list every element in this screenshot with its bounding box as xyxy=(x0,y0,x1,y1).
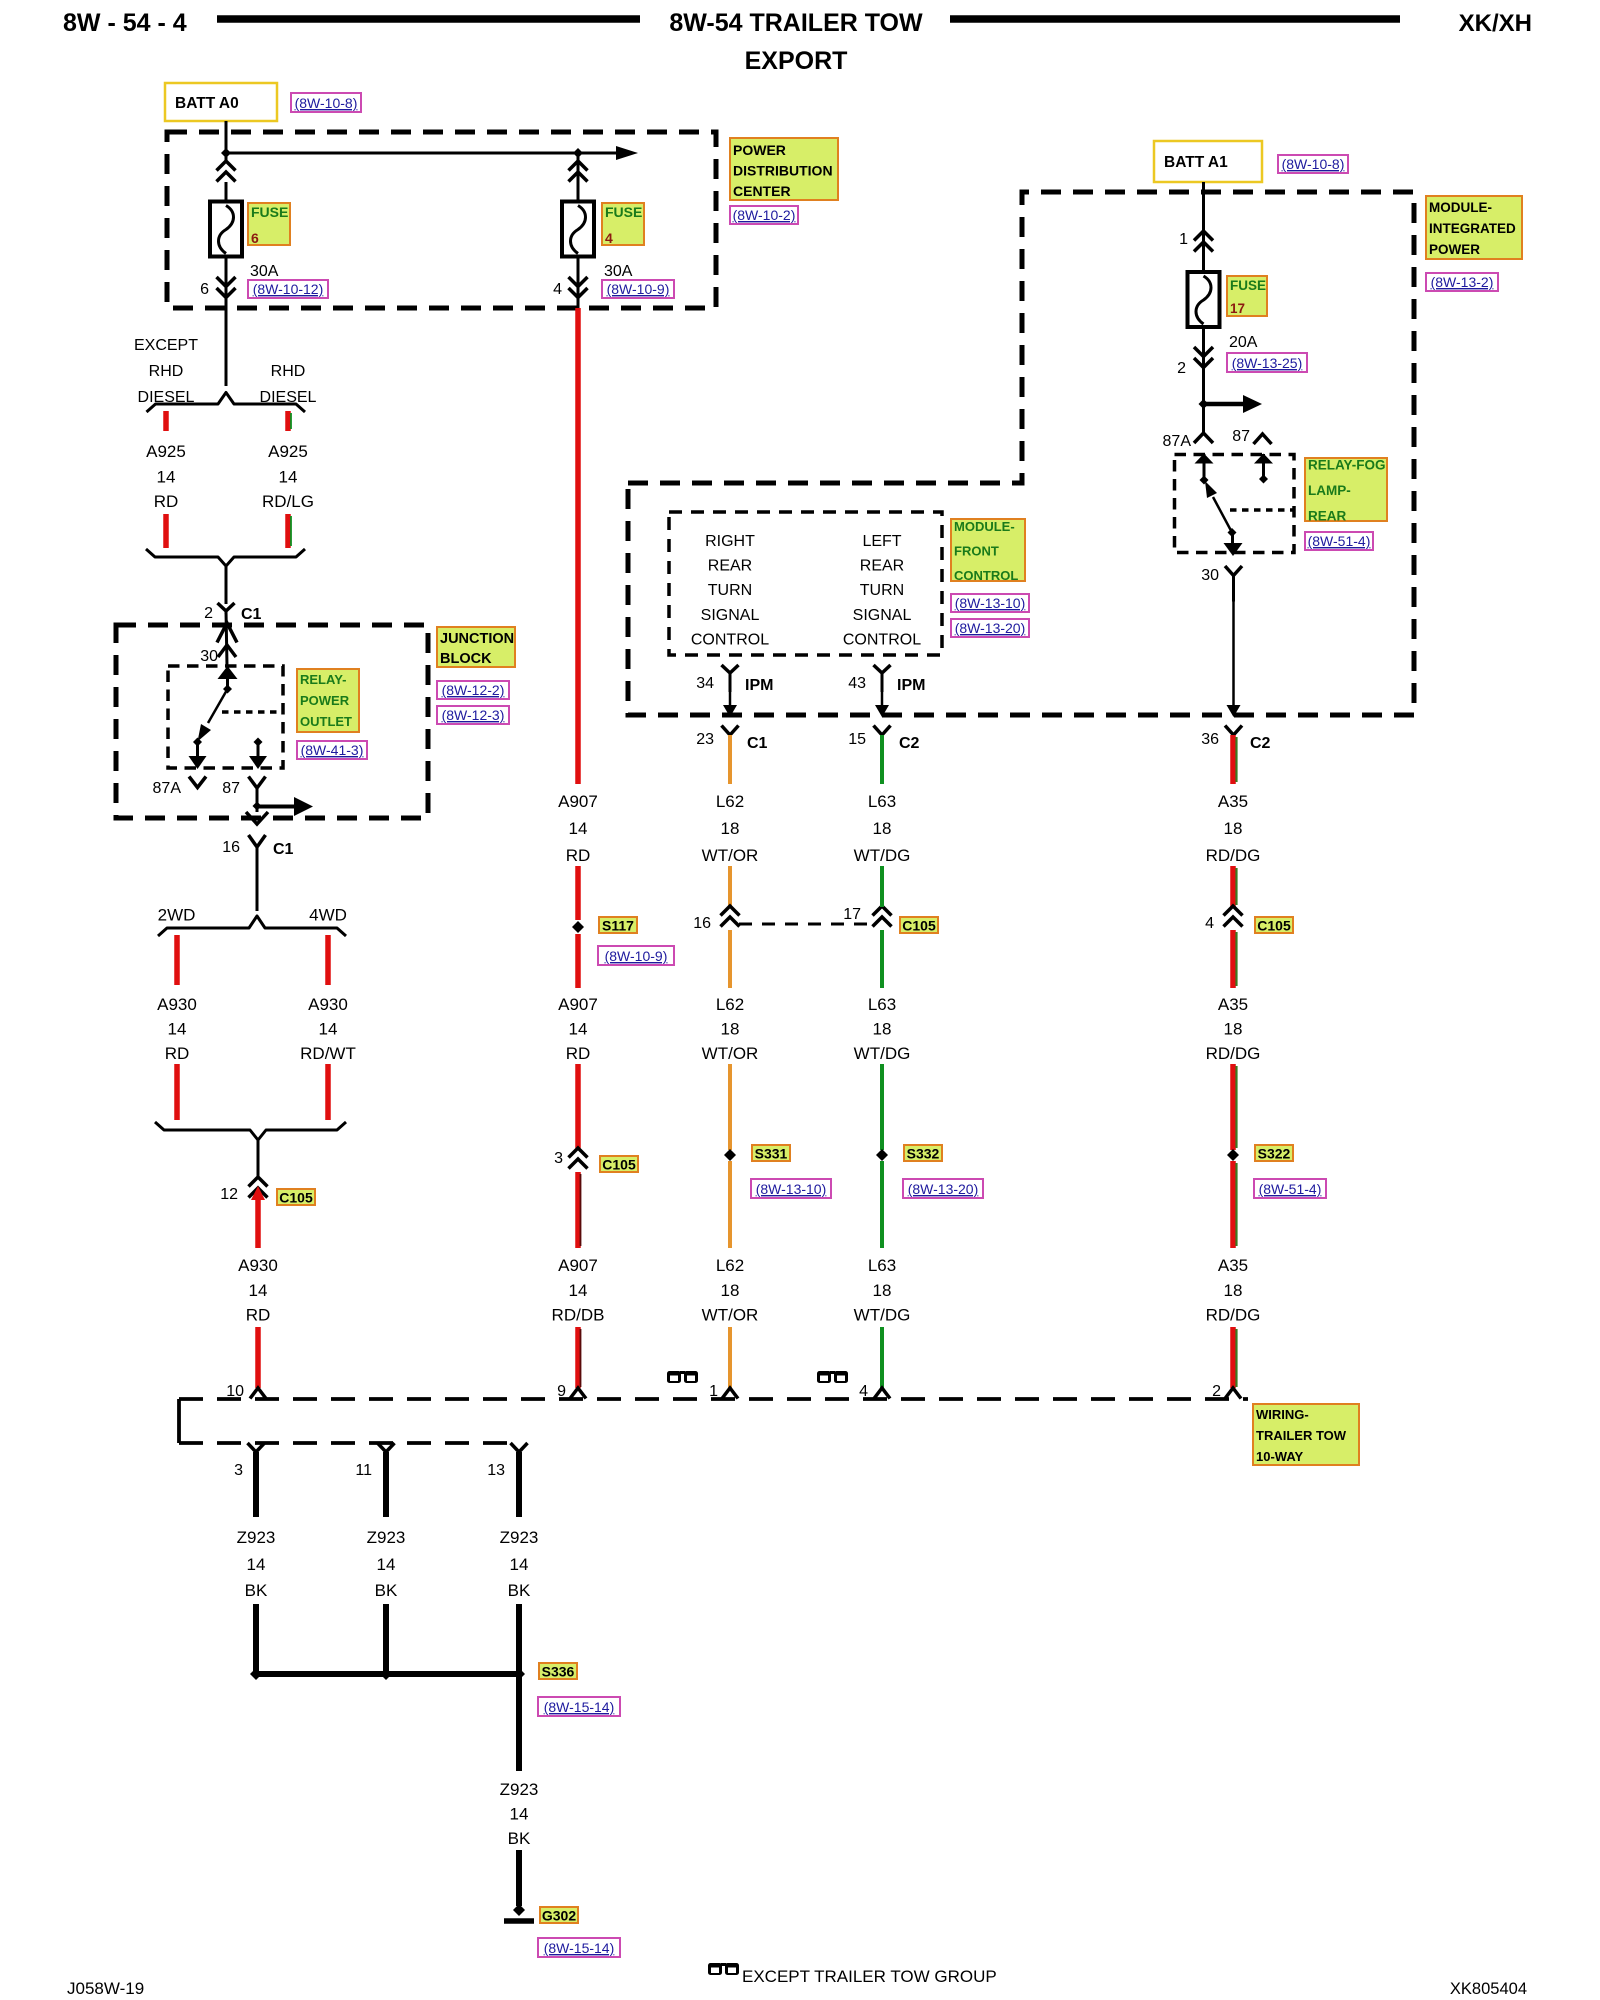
link 8W-13-25 for fuse 17 xyxy=(1227,353,1307,372)
splice bus wire S336 xyxy=(256,1671,519,1677)
relay 87 contact inside xyxy=(1262,454,1265,479)
link 8W-51-4 for S322 xyxy=(1254,1179,1326,1198)
svg-text:4: 4 xyxy=(859,1383,868,1400)
wiring trailer tow 10-way dashed connector line xyxy=(179,1397,1248,1401)
FUSE 6 label box xyxy=(248,203,290,245)
merge brace from A930 branches xyxy=(155,1122,346,1140)
split brace to A930 branches xyxy=(158,916,346,936)
C105 mating arrow xyxy=(251,1186,265,1200)
svg-text:Z923: Z923 xyxy=(367,1528,406,1547)
svg-text:18: 18 xyxy=(721,819,740,838)
link 8W-15-14 for S336 xyxy=(538,1697,620,1716)
svg-text:14: 14 xyxy=(157,468,176,487)
svg-text:S336: S336 xyxy=(542,1664,575,1680)
svg-text:14: 14 xyxy=(168,1020,187,1039)
svg-text:BK: BK xyxy=(375,1581,398,1600)
svg-text:DISTRIBUTION: DISTRIBUTION xyxy=(733,163,833,179)
svg-text:RD: RD xyxy=(566,846,591,865)
wire L63 18 WT/DG upper xyxy=(880,735,884,784)
RELAY-POWER OUTLET label box xyxy=(297,669,359,732)
MODULE-INTEGRATED POWER label box xyxy=(1426,196,1522,259)
wire from fuse 4 input chevrons xyxy=(577,153,580,202)
svg-text:(8W-10-9): (8W-10-9) xyxy=(605,948,668,964)
wire A925 14 RD upper segment xyxy=(163,411,169,431)
wire A907 RD/DB into connector xyxy=(575,1327,581,1388)
svg-text:14: 14 xyxy=(249,1281,268,1300)
JUNCTION BLOCK label box xyxy=(437,627,515,667)
wire A907 14 RD/DB segment xyxy=(575,1172,581,1248)
FUSE 4 label box xyxy=(602,203,644,245)
svg-text:14: 14 xyxy=(377,1555,396,1574)
svg-text:14: 14 xyxy=(247,1555,266,1574)
C105 label at pin 3 xyxy=(600,1156,638,1172)
svg-text:L63: L63 xyxy=(868,995,896,1014)
wire A930 14 RD upper segment xyxy=(174,935,180,985)
svg-text:FUSE: FUSE xyxy=(605,204,642,220)
wire A907 RD to C105 pin 3 xyxy=(575,1064,581,1148)
wire from fuse 6 to diesel split xyxy=(225,308,228,386)
svg-text:36: 36 xyxy=(1201,731,1219,748)
svg-text:RHD: RHD xyxy=(271,363,306,380)
svg-text:WT/OR: WT/OR xyxy=(702,846,759,865)
svg-text:11: 11 xyxy=(355,1462,372,1479)
svg-text:30: 30 xyxy=(1201,567,1219,584)
svg-text:87: 87 xyxy=(222,780,240,797)
wire L62 WT/OR to splice S331 xyxy=(728,1064,732,1150)
relay common output pin 30 xyxy=(1231,533,1234,545)
svg-text:4: 4 xyxy=(553,281,562,298)
svg-text:RELAY-: RELAY- xyxy=(300,672,346,687)
svg-text:TURN: TURN xyxy=(708,582,752,599)
relay 87A contact inside xyxy=(1203,454,1206,480)
svg-text:C1: C1 xyxy=(241,606,262,623)
wire L62 WT/OR below C105 xyxy=(728,930,732,988)
svg-text:A930: A930 xyxy=(308,995,348,1014)
arrow IPM pin 34 to box edge xyxy=(729,692,732,705)
svg-text:JUNCTION: JUNCTION xyxy=(440,631,514,647)
svg-text:2: 2 xyxy=(1177,360,1186,377)
link 8W-51-4 for fog lamp relay xyxy=(1305,532,1373,550)
wire L62 18 WT/OR upper xyxy=(728,735,732,784)
svg-text:MODULE-: MODULE- xyxy=(954,519,1015,534)
ground wire final segment xyxy=(516,1850,522,1906)
svg-text:18: 18 xyxy=(721,1020,740,1039)
wire A907 RD below S117 xyxy=(575,934,581,988)
fuse 4 output wire and chevrons xyxy=(577,257,580,309)
svg-text:(8W-51-4): (8W-51-4) xyxy=(1308,533,1371,549)
svg-text:87A: 87A xyxy=(153,780,182,797)
module front control inner dashed box xyxy=(669,512,942,655)
svg-text:CONTROL: CONTROL xyxy=(843,631,921,648)
node junction dot on fog lamp feed xyxy=(1199,399,1209,409)
wire A930 RD lower segment xyxy=(174,1064,180,1120)
wire A35 RD/DG to splice S322 xyxy=(1230,1064,1236,1150)
relay power outlet dashed box xyxy=(168,666,283,768)
svg-text:REAR: REAR xyxy=(1308,509,1347,524)
svg-text:(8W-10-8): (8W-10-8) xyxy=(295,95,358,111)
arrow branch to other circuits xyxy=(257,805,294,809)
svg-text:2: 2 xyxy=(204,605,213,622)
link 8W-13-10 for S331 xyxy=(751,1179,831,1198)
svg-text:C105: C105 xyxy=(1257,918,1291,934)
svg-text:CONTROL: CONTROL xyxy=(954,568,1018,583)
svg-text:43: 43 xyxy=(848,675,866,692)
node junction dot at fuse 4 feed xyxy=(573,148,583,158)
link 8W-12-2 for junction block xyxy=(437,681,509,699)
node splice dot S322 xyxy=(1227,1149,1239,1161)
svg-text:17: 17 xyxy=(1230,301,1245,316)
svg-text:C2: C2 xyxy=(1250,735,1271,752)
wire A930 14 RD/WT upper segment xyxy=(325,935,331,985)
svg-text:34: 34 xyxy=(696,675,714,692)
svg-text:SIGNAL: SIGNAL xyxy=(853,607,912,624)
svg-text:(8W-12-2): (8W-12-2) xyxy=(442,682,505,698)
wire L62 WT/OR into connector xyxy=(728,1327,732,1388)
relay internal dashed contact line fog xyxy=(1230,508,1294,512)
battery feed BATT A1 box xyxy=(1154,141,1262,182)
svg-text:CENTER: CENTER xyxy=(733,183,791,199)
wire A925 RD lower segment xyxy=(163,514,169,548)
relay internal dashed contact line xyxy=(222,710,283,714)
node splice dot S117 xyxy=(572,921,584,933)
WIRING-TRAILER TOW 10-WAY label box xyxy=(1253,1404,1359,1465)
svg-text:(8W-12-3): (8W-12-3) xyxy=(442,707,505,723)
svg-text:A35: A35 xyxy=(1218,1256,1248,1275)
svg-text:WT/OR: WT/OR xyxy=(702,1044,759,1063)
ground wire pin 13 upper xyxy=(516,1452,522,1517)
G302 ground label xyxy=(540,1907,578,1923)
merge brace from A925 branches xyxy=(146,549,305,566)
fuse F6 symbol xyxy=(210,202,242,257)
svg-text:3: 3 xyxy=(554,1150,563,1167)
node junction dot at fuse 6 feed xyxy=(221,148,231,158)
svg-text:FUSE: FUSE xyxy=(251,204,288,220)
svg-text:A35: A35 xyxy=(1218,995,1248,1014)
ground wire pin 11 lower xyxy=(383,1604,389,1674)
svg-text:RD: RD xyxy=(566,1044,591,1063)
svg-text:FUSE: FUSE xyxy=(1230,278,1266,293)
svg-text:Z923: Z923 xyxy=(237,1528,276,1547)
svg-text:4WD: 4WD xyxy=(309,906,347,925)
svg-text:A925: A925 xyxy=(146,442,186,461)
svg-text:(8W-15-14): (8W-15-14) xyxy=(544,1940,615,1956)
svg-text:14: 14 xyxy=(279,468,298,487)
svg-text:8W - 54 - 4: 8W - 54 - 4 xyxy=(63,9,187,37)
connector left corner xyxy=(177,1399,181,1443)
svg-text:(8W-13-25): (8W-13-25) xyxy=(1232,355,1303,371)
svg-text:2WD: 2WD xyxy=(158,906,196,925)
MODULE-FRONT CONTROL label box xyxy=(951,519,1025,581)
arrow branch from fog lamp feed xyxy=(1204,402,1244,407)
relay coil feed pin 30 inside xyxy=(226,667,229,689)
header rule right xyxy=(950,15,1400,23)
svg-text:OUTLET: OUTLET xyxy=(300,714,352,729)
svg-text:WIRING-: WIRING- xyxy=(1256,1407,1309,1422)
svg-text:18: 18 xyxy=(1224,1281,1243,1300)
svg-text:C2: C2 xyxy=(899,735,920,752)
ground G302 symbol xyxy=(513,1904,525,1916)
C105 in-line connector dashed tie xyxy=(739,923,872,926)
svg-text:IPM: IPM xyxy=(745,677,773,694)
relay fog lamp rear dashed box xyxy=(1175,455,1295,553)
arrow at module edge xyxy=(1227,705,1241,717)
S336 splice label xyxy=(539,1663,577,1679)
svg-text:BK: BK xyxy=(508,1581,531,1600)
svg-text:18: 18 xyxy=(873,819,892,838)
relay contact 87A output xyxy=(196,742,199,757)
wire A925 RD/LG lower segment xyxy=(285,514,291,548)
svg-text:18: 18 xyxy=(1224,819,1243,838)
svg-text:6: 6 xyxy=(251,230,259,246)
svg-text:(8W-51-4): (8W-51-4) xyxy=(1259,1181,1322,1197)
wire A35 RD/DG to C105 pin 4 xyxy=(1230,866,1236,907)
wire A35 RD/DG into connector xyxy=(1230,1327,1236,1388)
ground wire pin 3 upper xyxy=(253,1452,259,1517)
header rule left xyxy=(217,15,640,23)
relay contact 87 output xyxy=(254,738,263,747)
junction block exit chevron xyxy=(246,812,268,824)
link 8W-10-12 for fuse 6 xyxy=(248,280,328,298)
node splice dot pin3 xyxy=(250,1668,262,1680)
svg-text:L62: L62 xyxy=(716,792,744,811)
svg-text:6: 6 xyxy=(200,281,209,298)
wire L63 WT/DG to splice S332 xyxy=(880,1064,884,1150)
link 8W-12-3 for junction block xyxy=(437,706,509,724)
svg-text:POWER: POWER xyxy=(1429,242,1480,257)
svg-text:L62: L62 xyxy=(716,1256,744,1275)
link 8W-10-8 for BATT A1 xyxy=(1278,155,1348,173)
svg-text:RIGHT: RIGHT xyxy=(705,533,755,550)
svg-text:REAR: REAR xyxy=(860,558,904,575)
svg-text:WT/DG: WT/DG xyxy=(854,1044,911,1063)
wire pin 30 to module edge xyxy=(1232,601,1235,705)
svg-text:Z923: Z923 xyxy=(500,1780,539,1799)
connector internal ground jumper dashed line xyxy=(179,1441,511,1445)
node splice dot S331 xyxy=(724,1149,736,1161)
fuse 17 output wire and chevrons xyxy=(1202,327,1205,433)
wire A35 RD/DG below S322 xyxy=(1230,1161,1236,1248)
module integrated power dashed outline xyxy=(628,192,1414,715)
svg-text:RD/DB: RD/DB xyxy=(552,1306,605,1325)
link 8W-13-2 for module integrated power xyxy=(1426,273,1498,291)
svg-text:12: 12 xyxy=(220,1186,238,1203)
svg-text:3: 3 xyxy=(234,1462,243,1479)
svg-text:RD: RD xyxy=(154,492,179,511)
svg-text:EXCEPT: EXCEPT xyxy=(134,337,198,354)
svg-text:WT/DG: WT/DG xyxy=(854,846,911,865)
ground wire pin 13 lower xyxy=(516,1604,522,1674)
link 8W-10-2 for PDC xyxy=(730,206,798,224)
ground wire Z923 below S336 xyxy=(516,1674,522,1771)
RELAY-FOG LAMP-REAR label box xyxy=(1305,458,1387,521)
svg-text:SIGNAL: SIGNAL xyxy=(701,607,760,624)
svg-text:LAMP-: LAMP- xyxy=(1308,483,1351,498)
svg-text:S322: S322 xyxy=(1258,1146,1291,1162)
svg-text:FRONT: FRONT xyxy=(954,544,999,559)
link 8W-41-3 for relay xyxy=(297,741,367,759)
svg-text:BATT A1: BATT A1 xyxy=(1164,154,1228,171)
ground wire pin 3 lower xyxy=(253,1604,259,1674)
wire L63 WT/DG below S332 xyxy=(880,1161,884,1248)
fuse F4 symbol xyxy=(562,202,594,257)
svg-text:C1: C1 xyxy=(747,735,768,752)
svg-text:18: 18 xyxy=(721,1281,740,1300)
svg-text:(8W-13-10): (8W-13-10) xyxy=(955,595,1026,611)
svg-text:Z923: Z923 xyxy=(500,1528,539,1547)
svg-text:C1: C1 xyxy=(273,841,294,858)
svg-text:9: 9 xyxy=(557,1383,566,1400)
svg-text:RD/DG: RD/DG xyxy=(1206,1306,1261,1325)
wire A930 14 RD to trailer tow xyxy=(255,1198,261,1248)
wire A35 RD/DG below C105 xyxy=(1230,930,1236,988)
svg-text:13: 13 xyxy=(487,1462,505,1479)
svg-text:2: 2 xyxy=(1212,1383,1221,1400)
wire L63 WT/DG below C105 xyxy=(880,930,884,988)
link 8W-13-20 for S332 xyxy=(903,1179,983,1198)
wire BATT A1 into module xyxy=(1202,182,1205,272)
svg-text:RELAY-FOG: RELAY-FOG xyxy=(1308,458,1386,473)
svg-text:BLOCK: BLOCK xyxy=(440,651,492,667)
wire L62 WT/OR below S331 xyxy=(728,1161,732,1248)
svg-text:BATT A0: BATT A0 xyxy=(175,95,239,112)
wire L62 WT/OR to C105 pin 16 xyxy=(728,866,732,907)
svg-text:RD: RD xyxy=(165,1044,190,1063)
ground wire pin 11 upper xyxy=(383,1452,389,1517)
svg-text:A925: A925 xyxy=(268,442,308,461)
svg-text:C105: C105 xyxy=(602,1157,636,1173)
wire to connector C105 pin 12 xyxy=(257,1140,260,1177)
svg-text:(8W-10-2): (8W-10-2) xyxy=(733,207,796,223)
svg-text:EXPORT: EXPORT xyxy=(745,47,848,75)
svg-text:LEFT: LEFT xyxy=(862,533,901,550)
svg-text:(8W-41-3): (8W-41-3) xyxy=(301,742,364,758)
svg-text:87: 87 xyxy=(1232,428,1250,445)
battery feed BATT A0 box xyxy=(165,83,277,121)
link 8W-10-9 for S117 xyxy=(598,946,674,965)
svg-text:L62: L62 xyxy=(716,995,744,1014)
junction block pin 30 entry chevrons xyxy=(217,623,237,643)
svg-text:POWER: POWER xyxy=(733,142,786,158)
svg-text:14: 14 xyxy=(569,1020,588,1039)
svg-text:18: 18 xyxy=(873,1020,892,1039)
wire from BATT A0 into PDC xyxy=(225,121,228,161)
link 8W-13-10 for module front control xyxy=(951,594,1029,612)
svg-text:XK/XH: XK/XH xyxy=(1459,10,1532,37)
svg-text:EXCEPT TRAILER TOW GROUP: EXCEPT TRAILER TOW GROUP xyxy=(742,1967,997,1986)
svg-text:REAR: REAR xyxy=(708,558,752,575)
wire A930 RD/WT lower segment xyxy=(325,1064,331,1120)
svg-text:C105: C105 xyxy=(279,1190,313,1206)
svg-text:(8W-13-20): (8W-13-20) xyxy=(908,1181,979,1197)
svg-text:L63: L63 xyxy=(868,792,896,811)
node splice dot S336 xyxy=(513,1668,525,1680)
fuse F17 symbol xyxy=(1188,272,1220,327)
wire to 2WD/4WD split xyxy=(256,872,259,911)
S331 splice label xyxy=(752,1145,790,1161)
svg-text:87A: 87A xyxy=(1163,433,1192,450)
svg-text:WT/DG: WT/DG xyxy=(854,1306,911,1325)
svg-text:MODULE-: MODULE- xyxy=(1429,200,1492,215)
relay switch arm xyxy=(208,689,228,723)
S322 splice label xyxy=(1255,1145,1293,1161)
svg-text:23: 23 xyxy=(696,731,714,748)
link 8W-15-14 for G302 xyxy=(538,1938,620,1957)
svg-text:30A: 30A xyxy=(604,263,633,280)
footer legend glasses icon xyxy=(708,1963,722,1975)
svg-text:(8W-10-8): (8W-10-8) xyxy=(1282,156,1345,172)
svg-text:TRAILER TOW: TRAILER TOW xyxy=(1256,1428,1347,1443)
svg-text:XK805404: XK805404 xyxy=(1450,1980,1527,1998)
bus wire across PDC xyxy=(226,152,616,155)
link 8W-10-8 for BATT A0 xyxy=(291,93,361,112)
svg-text:POWER: POWER xyxy=(300,693,350,708)
FUSE 17 label box xyxy=(1227,276,1267,316)
svg-text:S331: S331 xyxy=(755,1146,788,1162)
svg-text:(8W-10-12): (8W-10-12) xyxy=(253,281,324,297)
svg-text:(8W-13-10): (8W-13-10) xyxy=(756,1181,827,1197)
svg-text:30: 30 xyxy=(200,648,218,665)
fuse 6 input connector chevrons xyxy=(217,161,236,171)
svg-text:A907: A907 xyxy=(558,1256,598,1275)
svg-text:TURN: TURN xyxy=(860,582,904,599)
link 8W-10-9 for fuse 4 xyxy=(602,280,674,298)
svg-text:30A: 30A xyxy=(250,263,279,280)
arrow continuation of PDC bus xyxy=(616,146,638,160)
svg-text:16: 16 xyxy=(693,915,711,932)
svg-text:4: 4 xyxy=(1205,915,1214,932)
svg-text:A35: A35 xyxy=(1218,792,1248,811)
wire into junction block connector C1 xyxy=(225,566,228,604)
svg-text:RD/WT: RD/WT xyxy=(300,1044,356,1063)
svg-text:J058W-19: J058W-19 xyxy=(67,1979,144,1998)
svg-text:1: 1 xyxy=(709,1383,718,1400)
relay switch arm fog lamp xyxy=(1213,497,1232,533)
svg-text:16: 16 xyxy=(222,839,240,856)
C105 label at pin 12 xyxy=(277,1189,315,1205)
svg-text:RD/DG: RD/DG xyxy=(1206,846,1261,865)
svg-text:17: 17 xyxy=(843,906,861,923)
svg-text:IPM: IPM xyxy=(897,677,925,694)
svg-text:14: 14 xyxy=(569,819,588,838)
wire A35 18 RD/DG upper xyxy=(1230,735,1236,784)
svg-text:A907: A907 xyxy=(558,792,598,811)
svg-text:18: 18 xyxy=(1224,1020,1243,1039)
svg-text:G302: G302 xyxy=(542,1908,576,1924)
svg-text:RHD: RHD xyxy=(149,363,184,380)
link 8W-13-20 for module front control xyxy=(951,619,1029,637)
svg-text:L63: L63 xyxy=(868,1256,896,1275)
svg-text:INTEGRATED: INTEGRATED xyxy=(1429,221,1516,236)
C105 label at pins 16/17 xyxy=(900,917,938,933)
except trailer tow glasses icon left xyxy=(667,1371,681,1383)
C105 label at pin 4 xyxy=(1255,917,1293,933)
svg-text:BK: BK xyxy=(245,1581,268,1600)
wire L63 WT/DG to C105 pin 17 xyxy=(880,866,884,907)
svg-text:(8W-13-2): (8W-13-2) xyxy=(1431,274,1494,290)
svg-text:(8W-10-9): (8W-10-9) xyxy=(607,281,670,297)
svg-text:8W-54 TRAILER TOW: 8W-54 TRAILER TOW xyxy=(669,9,923,37)
junction block dashed box xyxy=(116,625,428,818)
arrow IPM pin 43 to box edge xyxy=(881,692,884,705)
wire L63 WT/DG into connector xyxy=(880,1327,884,1388)
svg-text:1: 1 xyxy=(1179,231,1188,248)
PDC label box xyxy=(730,138,838,200)
split brace to A925 branches xyxy=(147,393,306,413)
svg-text:10-WAY: 10-WAY xyxy=(1256,1449,1304,1464)
wire A930 RD into connector xyxy=(255,1327,261,1388)
svg-text:14: 14 xyxy=(510,1555,529,1574)
svg-text:(8W-15-14): (8W-15-14) xyxy=(544,1699,615,1715)
